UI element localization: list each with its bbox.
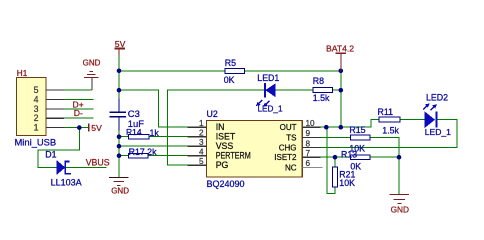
svg-text:R11: R11 [378, 107, 394, 117]
svg-text:LED2: LED2 [426, 93, 448, 103]
capacitor C3 value 1uF [128, 118, 144, 129]
svg-text:GND: GND [111, 187, 129, 196]
resistor R15 [351, 135, 371, 140]
U2 pin 10 stub [302, 119, 320, 128]
ground label GND above H1 [83, 58, 101, 67]
LED2 [423, 103, 437, 127]
svg-text:R8: R8 [313, 76, 324, 86]
junction node bus IN row [117, 88, 122, 93]
power port 5V at H1 pin1 [89, 123, 102, 133]
svg-text:3: 3 [199, 138, 204, 147]
resistor R5 designator [225, 58, 236, 68]
U2 pin name VSS [216, 141, 234, 151]
U2 pin name PG [216, 160, 229, 170]
wire LED2 cathode loop to CHG row [321, 120, 458, 148]
wire central bus below C3 to GND [118, 117, 120, 177]
svg-text:R14: R14 [126, 127, 142, 137]
resistor R5 value 0K [224, 75, 235, 85]
resistor R21 vertical [333, 167, 338, 187]
svg-text:10: 10 [306, 119, 316, 128]
resistor R14 [129, 134, 150, 139]
H1 pin 5 stub [34, 85, 64, 95]
wire VSS row bus to pin3 [119, 145, 188, 147]
junction node R13 right GND [397, 155, 402, 160]
svg-text:PERTERM: PERTERM [216, 151, 251, 161]
wire R14 row bus to pin2 [119, 136, 188, 138]
svg-text:TS: TS [286, 133, 296, 142]
U2 pin name TS [286, 133, 296, 142]
resistor R13 value 0K [350, 162, 361, 172]
wire BAT4.2 bus vertical [340, 71, 342, 127]
svg-text:R15: R15 [349, 125, 365, 135]
LED2 model LED_1 [425, 127, 451, 137]
junction node OUT BAT bus [339, 125, 344, 130]
wire R15 right down to R13 node [370, 137, 399, 157]
wire R11 to LED2 anode [400, 119, 425, 121]
svg-text:10K: 10K [339, 178, 355, 188]
wire H1 pin1 down to D1 anode [38, 128, 79, 168]
svg-text:LED_1: LED_1 [425, 127, 451, 137]
wire GND drop at x=399 [398, 157, 400, 194]
U2 pin 8 stub [302, 139, 320, 148]
H1 pin 4 stub [34, 94, 64, 104]
power port 5V top [114, 39, 125, 55]
wire H1 pin5 to GND [64, 89, 92, 91]
connector H1 model Mini_USB [15, 137, 57, 148]
U2 pin name NC [285, 163, 297, 172]
net label D- [74, 108, 83, 118]
power port BAT4.2 [326, 43, 354, 70]
svg-text:IN: IN [216, 122, 225, 132]
resistor R17 [129, 153, 149, 158]
svg-text:2: 2 [199, 129, 204, 138]
svg-text:VSS: VSS [216, 141, 234, 151]
junction node BAT R8 row [339, 88, 344, 93]
H1 pin 2 stub [34, 113, 64, 123]
svg-text:1.5k: 1.5k [382, 125, 399, 135]
svg-text:1k: 1k [150, 128, 160, 138]
svg-text:1.5k: 1.5k [313, 93, 330, 103]
wire H1 pin2 D- [64, 117, 94, 119]
resistor R15 designator [349, 125, 365, 135]
wire OUT row pin10 to R11 riser [321, 120, 379, 128]
junction node H1 pin1 5V [77, 125, 82, 130]
LED1 [256, 83, 275, 107]
svg-text:R5: R5 [225, 58, 236, 68]
wire R21 top lead [334, 157, 336, 167]
U2 pin 6 stub NC gray [302, 159, 322, 168]
svg-text:VBUS: VBUS [86, 158, 110, 168]
svg-text:Mini_USB: Mini_USB [15, 137, 57, 148]
resistor R13 designator [341, 149, 357, 159]
junction node OUT riser x=327 [324, 125, 329, 130]
svg-text:0K: 0K [224, 75, 235, 85]
U2 pin name CHG [279, 144, 297, 153]
resistor R8 value 1.5k [313, 93, 330, 103]
LED2 designator [426, 93, 448, 103]
resistor R11 [379, 117, 400, 122]
U2 pin name OUT [280, 123, 297, 132]
svg-text:ISET: ISET [216, 132, 236, 142]
svg-text:PG: PG [216, 160, 229, 170]
svg-text:NC: NC [285, 163, 297, 172]
svg-text:4: 4 [199, 148, 204, 157]
U2 pin 9 stub [302, 129, 320, 138]
U2 pin 3 stub [188, 138, 207, 147]
svg-text:GND: GND [391, 205, 409, 215]
wire VBUS from D1 cathode [66, 167, 106, 169]
svg-text:BQ24090: BQ24090 [207, 179, 245, 189]
wire R5 row from bus to R5 and to BAT bus [119, 70, 341, 72]
LED1 designator [257, 73, 279, 83]
junction node bus R17 row [117, 153, 122, 158]
ground label GND central [111, 187, 129, 196]
resistor R14 designator [126, 127, 142, 137]
svg-text:5: 5 [199, 157, 204, 166]
capacitor C3 [110, 99, 127, 131]
LED1 model LED_1 [258, 105, 283, 114]
wire R13 right to GND node [370, 156, 399, 158]
svg-text:5V: 5V [91, 123, 102, 133]
resistor R8 [313, 88, 332, 93]
svg-text:6: 6 [306, 159, 311, 168]
resistor R5 [225, 68, 245, 73]
U2 pin 4 stub [188, 148, 207, 157]
IC U2 designator [207, 109, 218, 119]
svg-text:LED1: LED1 [257, 73, 279, 83]
junction node BAT R5 row [339, 69, 344, 74]
junction node R21 top ISET2 [333, 155, 338, 160]
H1 pin 3 stub [34, 104, 64, 114]
ground symbol above H1 pin5 (inverted) [84, 72, 98, 91]
connector H1 designator [17, 69, 28, 78]
net label VBUS [86, 158, 110, 168]
junction node bus R14 row [117, 134, 122, 139]
svg-text:CHG: CHG [279, 144, 297, 153]
svg-text:1: 1 [199, 119, 204, 128]
ground symbol right [390, 195, 410, 204]
diode D1 [57, 161, 71, 173]
svg-text:U2: U2 [207, 109, 218, 119]
wire PG net vertical to U2 pin5 and LED1 row [168, 90, 265, 165]
U2 pin name PERTERM [216, 151, 251, 161]
wire R21 bottom loop to OUT net [327, 127, 335, 193]
resistor R17 designator and value 2k [129, 147, 157, 157]
IC U2 body [206, 121, 302, 178]
wire TS row pin9 to R15 [321, 136, 351, 138]
wire H1 pin4 ID stub [64, 98, 94, 100]
diode D1 model LL103A [51, 178, 82, 188]
svg-text:ISET2: ISET2 [274, 153, 297, 162]
svg-text:LL103A: LL103A [51, 178, 82, 188]
wire LED1 anode to R8 to BAT bus [275, 89, 341, 91]
capacitor C3 designator [128, 108, 140, 119]
svg-text:8: 8 [306, 139, 311, 148]
svg-text:GND: GND [83, 58, 101, 67]
U2 pin 5 stub [188, 157, 207, 166]
svg-text:BAT4.2: BAT4.2 [326, 43, 354, 53]
svg-text:R17 2k: R17 2k [129, 147, 157, 157]
resistor R21 designator [339, 169, 355, 179]
resistor R14 value 1k [150, 128, 160, 138]
U2 pin name ISET [216, 132, 236, 142]
wire IN net: bus to U2 pin1 [119, 90, 188, 127]
resistor R11 value 1.5k [382, 125, 399, 135]
svg-text:1: 1 [34, 123, 39, 133]
wire R17 row bus to pin4 [119, 155, 188, 157]
junction node bus R5 row [117, 69, 122, 74]
resistor R15 value 10K [349, 143, 365, 153]
resistor R8 designator [313, 76, 324, 86]
U2 pin 1 stub [188, 119, 207, 128]
resistor R21 value 10K [339, 178, 355, 188]
wire 5V bus vertical x=119 top [118, 50, 120, 112]
U2 pin 7 stub [302, 149, 320, 158]
U2 pin name ISET2 [274, 153, 297, 162]
svg-text:LED_1: LED_1 [258, 105, 283, 114]
svg-text:OUT: OUT [280, 123, 297, 132]
svg-text:D-: D- [74, 108, 83, 118]
U2 pin name IN [216, 122, 225, 132]
svg-text:H1: H1 [17, 69, 28, 78]
resistor R13 [351, 155, 371, 160]
svg-text:7: 7 [306, 149, 311, 158]
svg-text:9: 9 [306, 129, 311, 138]
H1 pin 1 stub [34, 123, 64, 133]
wire ISET2 row pin7 to R13 [321, 156, 351, 158]
wire H1 pin3 D+ [64, 108, 94, 110]
wire H1 pin1 to 5V port [64, 127, 88, 129]
diode D1 designator [45, 149, 56, 159]
IC U2 model BQ24090 [207, 179, 245, 189]
svg-text:5V: 5V [115, 39, 126, 49]
U2 pin 2 stub [188, 129, 207, 138]
net label D+ [73, 99, 84, 109]
svg-text:R13: R13 [341, 149, 357, 159]
svg-text:D1: D1 [45, 149, 56, 159]
ground symbol central below bus [109, 178, 128, 186]
resistor R11 designator [378, 107, 394, 117]
connector H1 body [16, 77, 46, 135]
ground label GND right [391, 205, 409, 215]
junction node bus VSS row [117, 144, 122, 149]
